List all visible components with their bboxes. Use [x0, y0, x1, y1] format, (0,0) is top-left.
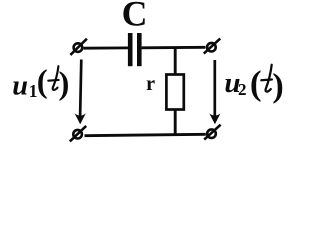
svg-text:2: 2 [238, 80, 247, 99]
wire bottom rail [85, 134, 206, 135]
wire top-left: from terminal to capacitor left plate [84, 47, 129, 50]
voltage arrow u2: arrowhead [209, 113, 220, 124]
voltage arrow u1: line [80, 60, 81, 118]
resistor r [166, 75, 183, 110]
capacitor C1 plates [130, 33, 139, 66]
voltage arrow u2: line [213, 60, 216, 117]
terminal bottom-right [204, 125, 220, 140]
svg-text:(: ( [37, 64, 48, 100]
svg-text:r: r [146, 73, 155, 95]
node label u1(t) [12, 64, 69, 102]
node label u2(t) [224, 63, 283, 104]
terminal top-right [204, 39, 220, 54]
svg-text:C: C [122, 0, 148, 34]
terminal top-left [70, 39, 87, 55]
wire top-right: from capacitor right plate to right terminal [142, 46, 206, 49]
svg-text:u: u [12, 71, 28, 102]
wire junction: top node down to resistor [174, 48, 177, 75]
svg-text:(: ( [250, 63, 262, 102]
svg-text:): ) [272, 68, 283, 105]
terminal bottom-left [70, 126, 86, 141]
voltage arrow u1: arrowhead [75, 113, 86, 124]
svg-text:): ) [59, 66, 70, 102]
wire: resistor bottom to bottom rail [174, 110, 177, 136]
